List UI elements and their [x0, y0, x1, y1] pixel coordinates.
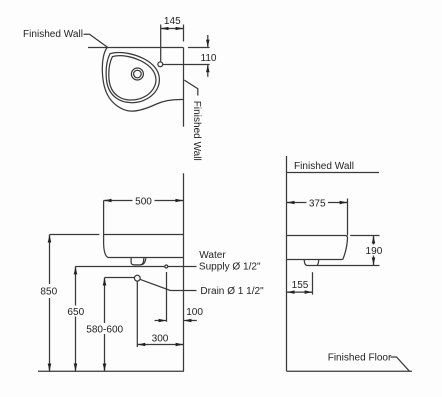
svg-text:190: 190: [366, 246, 383, 257]
dimension 110 (plan view): [163, 35, 217, 77]
svg-text:155: 155: [292, 280, 309, 291]
drain leader line: [140, 279, 197, 290]
svg-text:Finished Wall: Finished Wall: [191, 101, 202, 161]
drain boss front view: [131, 258, 146, 265]
second faucet hole (plan view): [158, 62, 163, 67]
dimension 850 (front view): [40, 235, 99, 372]
svg-text:Water: Water: [199, 250, 226, 261]
water supply label: [199, 250, 261, 272]
finished floor label (side view): [328, 353, 410, 372]
wall line vertical lower segment (front view right wall down to floor): [183, 173, 185, 371]
svg-text:Finished Wall: Finished Wall: [294, 161, 354, 172]
dimension 190 (side view): [350, 236, 382, 266]
svg-text:650: 650: [67, 307, 84, 318]
drain boss side view: [304, 260, 379, 266]
basin bowl inner edge (plan view): [109, 56, 156, 100]
dimension 375 (side view): [287, 198, 348, 236]
basin front view outline: [104, 235, 184, 258]
wall line vertical (side view): [286, 156, 288, 371]
drain circle (front view): [134, 275, 140, 281]
basin outer rim outline (plan view): [102, 48, 183, 111]
svg-text:Supply Ø 1/2": Supply Ø 1/2": [199, 261, 261, 272]
dimension 300 (front view): [137, 281, 183, 347]
svg-text:580-600: 580-600: [86, 325, 123, 336]
floor line (side view): [287, 370, 413, 372]
finished wall label (plan view, top-left): [23, 29, 108, 47]
dimension 500 (front view): [104, 196, 184, 235]
basin bowl outer edge (plan view): [106, 52, 159, 102]
svg-text:110: 110: [200, 53, 216, 64]
svg-text:Drain Ø 1 1/2": Drain Ø 1 1/2": [200, 286, 264, 297]
dimension 155 (side view): [287, 272, 313, 294]
svg-text:100: 100: [186, 307, 203, 318]
svg-text:850: 850: [40, 286, 57, 297]
svg-text:Finished Wall: Finished Wall: [23, 29, 83, 40]
faucet hole outer circle (plan view): [131, 68, 143, 80]
floor line (front view): [38, 370, 184, 372]
svg-text:500: 500: [135, 196, 152, 207]
svg-text:Finished Floor: Finished Floor: [328, 353, 392, 364]
finished wall label (side view): [287, 161, 380, 173]
dimension 145 (plan view): [161, 16, 184, 62]
svg-text:300: 300: [152, 334, 169, 345]
wall line vertical upper segment (plan view right wall): [183, 48, 185, 127]
dimension 580-600 (front view): [86, 278, 135, 372]
dimension 650 (front view): [67, 267, 84, 372]
basin side view outline: [287, 236, 348, 260]
faucet hole inner circle (plan view): [134, 70, 142, 78]
svg-text:375: 375: [309, 198, 326, 209]
dimension 100 (front view): [155, 272, 204, 322]
water supply line (front view): [75, 266, 196, 268]
water supply point circle: [165, 265, 168, 268]
svg-text:145: 145: [164, 16, 181, 27]
wall line horizontal (plan view): [88, 47, 184, 49]
rotated finished wall label (plan view right wall): [184, 80, 202, 161]
